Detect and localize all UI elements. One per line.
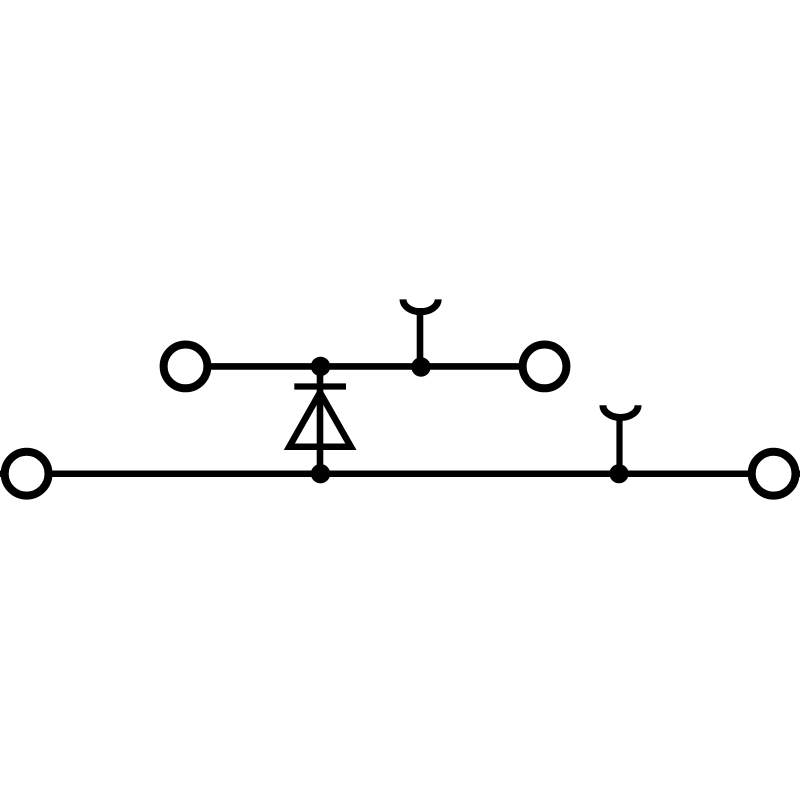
junction dot upper-right (test tap) (411, 357, 430, 376)
test point TP2 arc (603, 405, 638, 417)
terminal circle upper-right (523, 345, 567, 389)
terminal circle lower-left (5, 452, 49, 496)
wire diode branch vertical (317, 366, 324, 473)
junction dot lower-right (test tap) (609, 464, 628, 483)
wire test-point stem lower (616, 414, 622, 474)
terminal circle upper-left (164, 345, 208, 389)
terminal circle lower-right (752, 452, 796, 496)
junction dot upper-left (diode anode tap) (311, 357, 330, 376)
junction dot lower-left (diode cathode tap) (311, 464, 330, 483)
diode D1 triangle (289, 393, 351, 447)
wire lower bus (0, 470, 800, 477)
wire test-point stem upper (417, 308, 424, 366)
wire upper bus (186, 363, 545, 370)
diode D1 cathode bar (294, 383, 346, 389)
test point TP1 arc (403, 299, 438, 311)
